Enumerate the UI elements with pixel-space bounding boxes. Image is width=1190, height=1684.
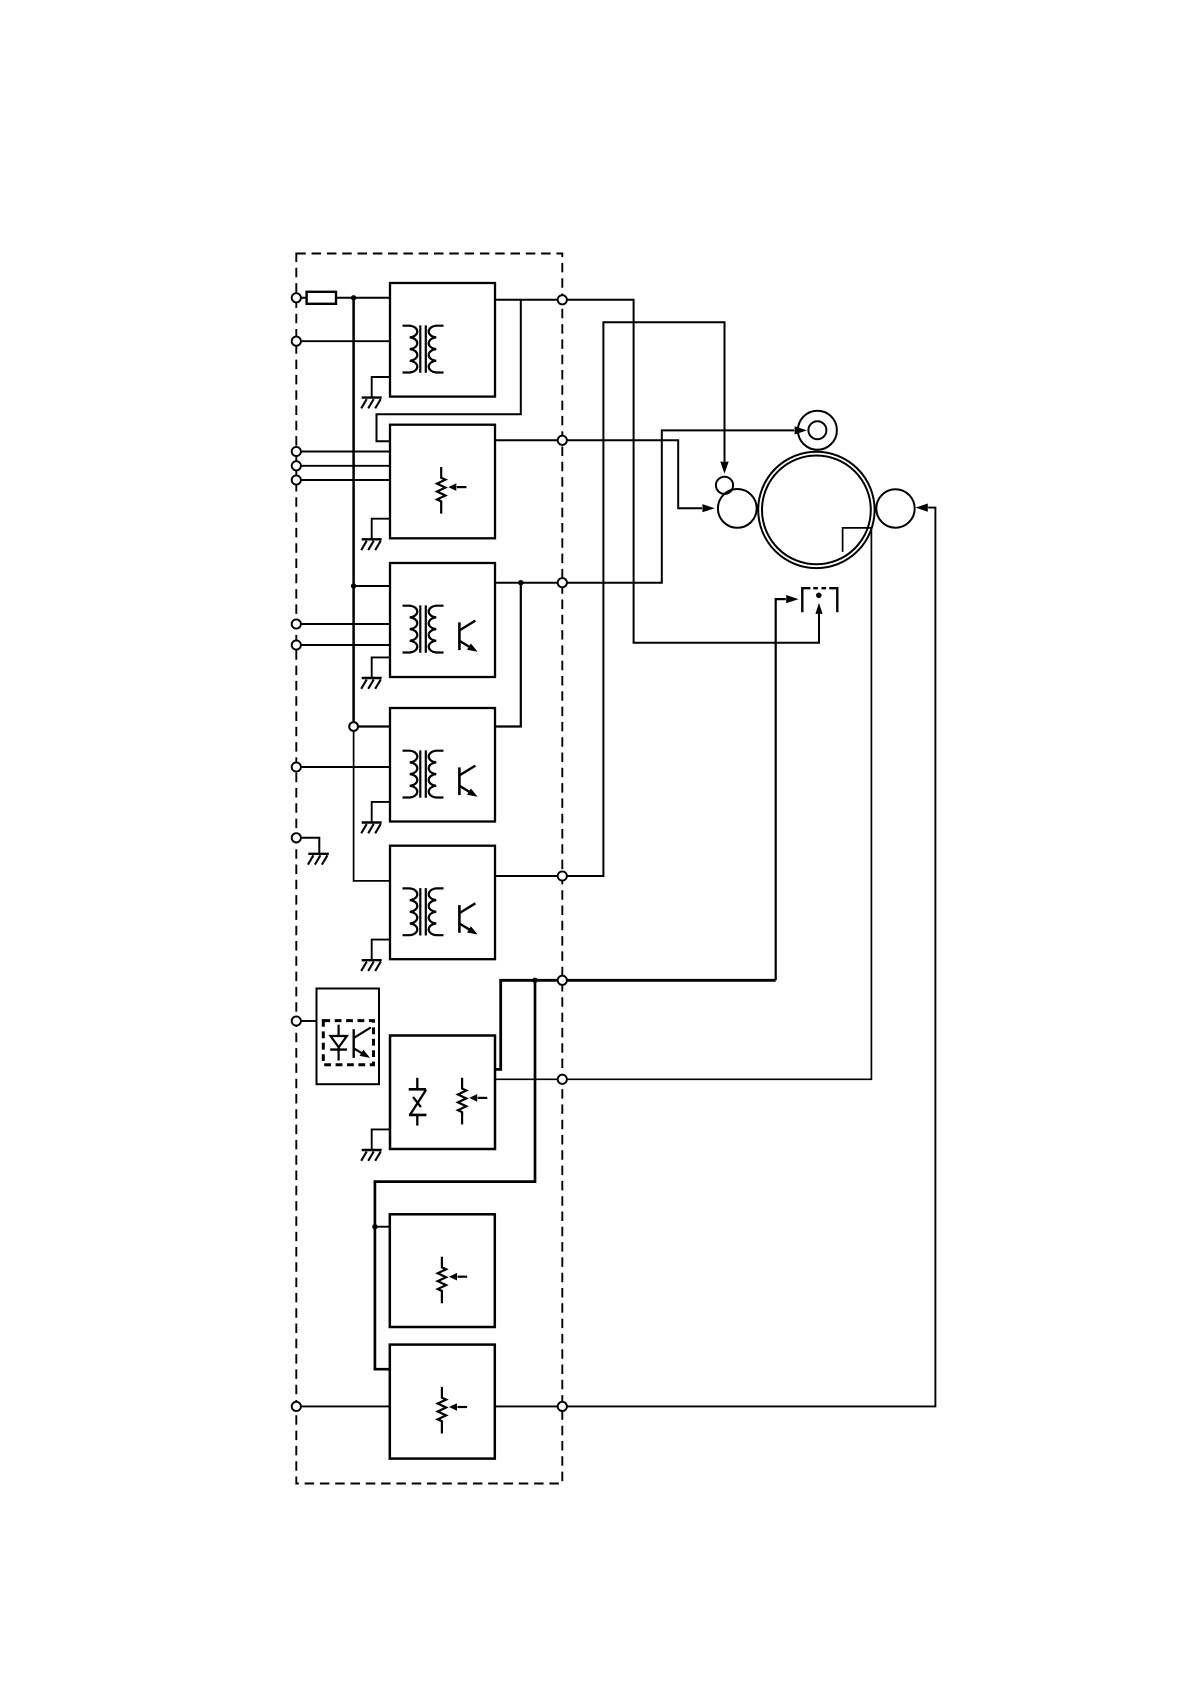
fuse resistor F1	[307, 292, 336, 304]
ground: grid regulator	[361, 1150, 382, 1161]
ground: developing bias unit	[361, 539, 382, 550]
node: junction on +24V rail	[351, 295, 356, 300]
terminal: charger output	[558, 578, 567, 587]
wire: bias transformer output to supply roller	[495, 322, 725, 876]
wire: ground stub of charger transformer 1	[372, 657, 390, 677]
block: transfer bias unit	[390, 1345, 495, 1459]
terminal: grid bias output	[558, 976, 567, 985]
terminal: input 1	[292, 293, 301, 302]
wire: grid regulator thick output to grid electrode	[495, 980, 776, 1069]
terminal: control input f	[292, 762, 301, 771]
wire: opto input to photocoupler	[301, 1020, 317, 1022]
node: junction bus rail to charger transformer 1	[351, 583, 356, 588]
terminal: signal ground input	[292, 833, 301, 842]
transistor Q3	[459, 903, 477, 934]
wire: grid regulator sense output to drum contact	[495, 528, 872, 1079]
terminal: photocoupler input	[292, 1016, 301, 1025]
transformer T4	[403, 888, 444, 935]
terminal: developing bias output	[558, 436, 567, 445]
wire: branch from grid line down to cleaning and transfer units	[375, 980, 535, 1369]
wire: charger transformer output to charging roller	[495, 430, 794, 582]
node: junction feeding cleaning bias unit	[372, 1224, 377, 1229]
wire: control input c to developing bias block	[301, 479, 390, 481]
transformer T3	[403, 750, 444, 797]
wire: ground stub of grid regulator	[372, 1129, 390, 1149]
wire: open connector to charger transformer 2 input	[358, 725, 390, 727]
terminal: main transformer output	[558, 295, 567, 304]
arrow: into grid electrode left side	[786, 595, 798, 603]
ground: bias transformer 3	[361, 960, 382, 971]
wire: developing bias output to developing roller	[495, 440, 702, 508]
wire: ground stub of charger transformer 2	[372, 802, 390, 822]
ground: main transformer unit	[361, 398, 382, 409]
LED of photocoupler	[330, 1025, 347, 1061]
wire: control input d to charger transformer 1	[301, 623, 390, 625]
wire: input 2 to main transformer block	[301, 340, 390, 342]
wire: ground stub of developing bias unit	[372, 519, 390, 539]
wire: transfer control input to transfer block	[301, 1405, 390, 1407]
variable resistor VR4	[438, 1387, 467, 1434]
photoconductor drum outer	[758, 452, 874, 568]
variable resistor VR1	[437, 467, 466, 513]
wire: transfer bias output to transfer roller	[495, 508, 935, 1407]
terminal: control input b	[292, 461, 301, 470]
phototransistor of photocoupler	[354, 1027, 371, 1058]
wire: grid feed riser with arrow into grid electrode	[776, 599, 786, 980]
photoconductor drum inner	[762, 456, 871, 565]
arrow: into charger grid from below	[815, 603, 822, 614]
terminal: control input a	[292, 447, 301, 456]
wire: bus rail to charger transformer 1 input	[354, 585, 390, 587]
terminal: drum contact output	[558, 1075, 567, 1084]
transformer T2	[403, 605, 444, 652]
wire: ground stub of bias transformer 3	[372, 940, 390, 960]
wire: signal ground stub	[301, 838, 319, 854]
transformer T1	[403, 325, 444, 372]
block: bias transformer unit 3	[390, 846, 495, 960]
toner supply roller	[716, 477, 733, 494]
variable resistor VR2	[458, 1078, 487, 1125]
wire: charger transformer 2 output tie	[495, 583, 521, 727]
grid electrode of charger (dashed screen symbol)	[802, 588, 837, 612]
wire: main transformer output to charger grid feed	[495, 300, 819, 643]
terminal: bias transformer output	[558, 871, 567, 880]
transfer roller	[876, 489, 914, 527]
terminal: control input c	[292, 475, 301, 484]
arrow: into charging roller core	[795, 426, 807, 434]
wire: control input b to developing bias block	[301, 465, 390, 467]
block: main high-voltage transformer unit	[390, 283, 495, 397]
node: junction on grid output line	[532, 978, 537, 983]
block: main charger transformer unit 2	[390, 708, 495, 822]
ground: charger transformer 1	[361, 678, 382, 689]
ground: charger transformer 2	[361, 823, 382, 834]
block: developing bias control unit	[390, 425, 495, 539]
arrow: into toner supply roller	[720, 462, 728, 474]
wire: feedback from main transformer to developing bias unit	[377, 300, 521, 442]
node: grid electrode center dot	[816, 593, 822, 599]
wire: control input e to charger transformer 1	[301, 644, 390, 646]
terminal: transfer bias output	[558, 1402, 567, 1411]
wire: control input f to charger transformer 2	[301, 766, 390, 768]
block: photocoupler unit	[317, 989, 380, 1085]
block: cleaning bias unit	[390, 1214, 495, 1327]
variable resistor VR3	[438, 1257, 467, 1304]
block: grid bias regulator unit	[390, 1036, 495, 1150]
wire: control input a to developing bias block	[301, 451, 390, 453]
photocoupler PC1 dashed body	[323, 1021, 373, 1065]
wire: input 1 through fuse to main transformer block	[301, 297, 390, 299]
zener diode ZD1	[409, 1078, 427, 1126]
node: junction of charger transformer 1 and 2 outputs	[518, 580, 523, 585]
wire: bus rail continuation to bias transformer 3	[354, 731, 390, 881]
arrow: into developing roller	[702, 504, 714, 512]
dashed HV power supply enclosure	[296, 254, 562, 1484]
arrow: into transfer roller	[915, 504, 927, 512]
terminal: control input d	[292, 619, 301, 628]
transistor Q2	[459, 766, 477, 797]
ground: input ground	[308, 854, 329, 865]
wire: ground stub of main transformer unit	[372, 377, 390, 397]
block: main charger transformer unit 1	[390, 563, 495, 677]
wire: vertical +24V bus rail	[352, 298, 355, 722]
wire: into cleaning bias unit	[375, 1226, 390, 1228]
developing roller	[718, 489, 757, 528]
charging roller core	[808, 421, 826, 439]
terminal: transfer control input	[292, 1402, 301, 1411]
node: open connector on bus rail	[349, 722, 358, 731]
terminal: input 2	[292, 337, 301, 346]
charging roller outer	[798, 411, 837, 450]
terminal: control input e	[292, 640, 301, 649]
transistor Q1	[459, 621, 477, 652]
